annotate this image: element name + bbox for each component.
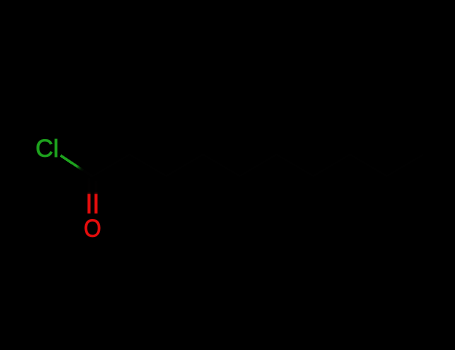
C1=O double bond right line bbox=[95, 181, 98, 214]
C1=O double bond left line bbox=[88, 178, 91, 214]
svg-text:Cl: Cl bbox=[36, 135, 59, 163]
svg-text:O: O bbox=[84, 215, 102, 243]
carbon chain C1-C10 (black skeleton, invisible on black background) bbox=[93, 155, 424, 177]
bond Cl-C1 bbox=[61, 155, 93, 176]
